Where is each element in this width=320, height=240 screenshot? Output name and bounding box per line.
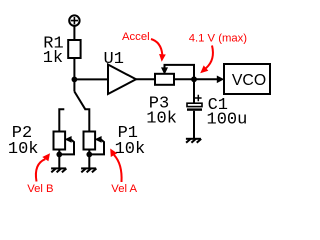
wire: [136, 78, 155, 80]
power supply positive terminal: [69, 15, 79, 25]
VCO box: [224, 64, 270, 94]
annotation arrow 4.1V: [200, 46, 213, 74]
svg-text:10k: 10k: [115, 140, 146, 159]
wire: [58, 150, 60, 169]
ground below C1: [186, 139, 201, 143]
wire: [88, 150, 90, 169]
svg-text:4.1 V (max): 4.1 V (max): [189, 32, 248, 44]
switch throw contact B and wire to P2: [59, 109, 64, 131]
svg-text:10k: 10k: [8, 140, 39, 159]
node junction at VCO input: [191, 76, 197, 82]
ground below P1: [81, 168, 96, 172]
annotation arrow Vel A: [110, 149, 121, 183]
svg-text:Accel: Accel: [122, 31, 150, 43]
switch throw contact A and wire to P1: [85, 109, 89, 131]
wire: [73, 26, 75, 40]
potentiometer P2 wiper: [59, 136, 74, 154]
svg-text:100u: 100u: [207, 111, 248, 130]
potentiometer P2 body: [54, 132, 66, 150]
svg-text:1k: 1k: [43, 49, 63, 68]
potentiometer P1 wiper: [89, 136, 104, 154]
wire: [74, 78, 108, 80]
capacitor C1 polarized: [187, 95, 202, 110]
potentiometer P3 wiper: [161, 65, 194, 79]
node P1 wiper junction: [86, 152, 92, 158]
svg-text:U1: U1: [104, 50, 124, 69]
wire: [174, 78, 194, 80]
svg-text:Vel A: Vel A: [111, 183, 137, 195]
node junction below R1: [72, 77, 78, 83]
wire: [193, 111, 195, 139]
potentiometer P1 body: [84, 132, 96, 150]
annotation arrow Accel: [151, 39, 166, 62]
annotation arrow Vel B: [36, 153, 50, 181]
op-amp U1: [108, 65, 136, 95]
wire: [73, 58, 75, 79]
resistor R1: [68, 40, 80, 58]
svg-text:10k: 10k: [146, 109, 177, 128]
svg-text:Vel B: Vel B: [27, 183, 53, 195]
wire switch pole: [73, 79, 75, 91]
svg-text:VCO: VCO: [232, 72, 266, 89]
node P2 wiper junction: [56, 152, 62, 158]
wire with arrow into VCO: [194, 76, 224, 84]
ground below P2: [51, 168, 66, 172]
potentiometer P3 body: [155, 74, 174, 85]
wire: [193, 79, 195, 103]
switch blade: [74, 92, 85, 110]
